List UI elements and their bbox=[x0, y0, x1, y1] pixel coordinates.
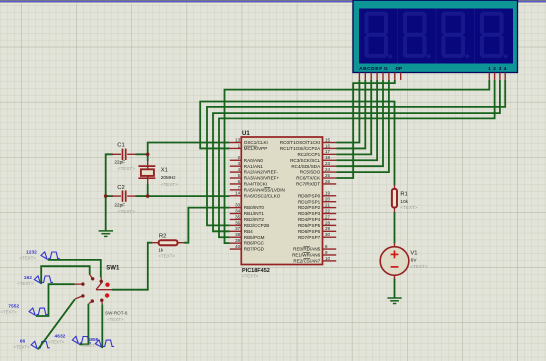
svg-text:<TEXT>: <TEXT> bbox=[118, 166, 135, 171]
svg-text:27: 27 bbox=[325, 214, 331, 219]
U1 right pin 24 bbox=[323, 171, 337, 173]
svg-text:RB3/CCP2B: RB3/CCP2B bbox=[244, 223, 270, 228]
svg-text:RA1/AN1: RA1/AN1 bbox=[244, 164, 264, 169]
svg-text:1k: 1k bbox=[158, 247, 164, 252]
U1 right pin 22 bbox=[323, 213, 337, 215]
wire R1 to V1 bbox=[394, 212, 396, 243]
svg-text:RE0/RD/AN5: RE0/RD/AN5 bbox=[293, 247, 321, 252]
ground (V1) bbox=[387, 298, 401, 304]
7-segment display DS1 body bbox=[353, 0, 518, 72]
wire digit 2 to RB5 pin 38 bbox=[219, 80, 495, 237]
svg-text:36: 36 bbox=[235, 220, 241, 225]
svg-text:16: 16 bbox=[325, 143, 331, 148]
wire seg C to RC2 pin 17 bbox=[336, 80, 371, 154]
U1 right pin 18 bbox=[323, 159, 337, 161]
wire from generator 4859 to SW1 bbox=[101, 304, 103, 348]
U1 left pin 35 bbox=[230, 218, 242, 220]
wire X1 bottom to OSC2 node bbox=[147, 184, 149, 196]
svg-text:14: 14 bbox=[235, 191, 241, 196]
svg-text:20: 20 bbox=[325, 197, 331, 202]
svg-text:34: 34 bbox=[235, 208, 241, 213]
U1 right pin 27 bbox=[323, 218, 337, 220]
wire C1 right bbox=[136, 153, 148, 155]
svg-text:V1: V1 bbox=[410, 251, 417, 257]
pulse generator 4859 bbox=[95, 340, 114, 347]
svg-text:RD0/PSP0: RD0/PSP0 bbox=[298, 193, 321, 198]
U1 right pin 17 bbox=[323, 153, 337, 155]
svg-text:<TEXT>: <TEXT> bbox=[1, 310, 18, 315]
svg-text:G: G bbox=[384, 66, 388, 72]
U1 left pin 6 bbox=[230, 183, 242, 185]
display digit 2 segments bbox=[403, 12, 431, 59]
svg-text:SW-ROT-6: SW-ROT-6 bbox=[105, 311, 128, 316]
svg-text:3: 3 bbox=[499, 66, 502, 72]
wire C2 right bbox=[136, 195, 148, 197]
svg-text:RB6/PGC: RB6/PGC bbox=[244, 241, 265, 246]
wire from generator 162 to SW1 bbox=[41, 266, 89, 284]
display segment letter labels bbox=[359, 66, 507, 72]
U1 right pin 21 bbox=[323, 207, 337, 209]
svg-text:37: 37 bbox=[235, 226, 241, 231]
digit cell divider bbox=[435, 9, 437, 64]
svg-text:<TEXT>: <TEXT> bbox=[48, 339, 65, 344]
svg-text:<TEXT>: <TEXT> bbox=[161, 182, 178, 187]
pulse generator 162 bbox=[34, 276, 53, 283]
U1 left pin 38 bbox=[230, 236, 242, 238]
svg-text:RD4/PSP4: RD4/PSP4 bbox=[298, 217, 321, 222]
wire C1 left rail bbox=[106, 154, 113, 231]
svg-text:21: 21 bbox=[325, 203, 331, 208]
svg-text:<TEXT>: <TEXT> bbox=[158, 253, 175, 258]
svg-text:25: 25 bbox=[325, 173, 331, 178]
U1 right pin 10 bbox=[323, 260, 337, 262]
wire C2 left bbox=[106, 195, 113, 197]
svg-text:29: 29 bbox=[325, 226, 331, 231]
U1 right pin 8 bbox=[323, 248, 337, 250]
svg-text:22pF: 22pF bbox=[114, 160, 125, 165]
svg-text:15: 15 bbox=[325, 137, 331, 142]
svg-text:<TEXT>: <TEXT> bbox=[81, 343, 98, 348]
ground (crystal caps) bbox=[99, 231, 113, 237]
svg-text:23: 23 bbox=[325, 161, 331, 166]
display inner window bbox=[359, 9, 513, 64]
wire from generator 7552 to SW1 bbox=[36, 284, 75, 316]
U1 left pin 2 bbox=[230, 159, 242, 161]
svg-text:RC4/SDI/SDA: RC4/SDI/SDA bbox=[291, 164, 321, 169]
svg-text:RC6/TX/CK: RC6/TX/CK bbox=[296, 176, 321, 181]
svg-text:6V: 6V bbox=[411, 257, 418, 262]
sheet top border bbox=[0, 0, 546, 2]
U1 left pin 33 bbox=[230, 207, 242, 209]
svg-text:RB2/INT2: RB2/INT2 bbox=[244, 217, 265, 222]
svg-text:24: 24 bbox=[325, 167, 331, 172]
junction node OSC1/X1/C1 bbox=[146, 153, 150, 157]
U1 right pin 26 bbox=[323, 183, 337, 185]
U1 left pin 40 bbox=[230, 248, 242, 250]
svg-text:R2: R2 bbox=[159, 234, 166, 240]
overlines on active-low pin names bbox=[244, 145, 257, 147]
svg-text:X1: X1 bbox=[161, 168, 168, 174]
svg-text:MCLR/VPP: MCLR/VPP bbox=[244, 146, 267, 151]
battery V1 bbox=[394, 243, 396, 247]
svg-text:39: 39 bbox=[235, 238, 241, 243]
U1 left pin 3 bbox=[230, 165, 242, 167]
svg-text:<TEXT>: <TEXT> bbox=[410, 264, 427, 269]
svg-text:28: 28 bbox=[325, 220, 331, 225]
SW1 selected-position dots bbox=[105, 283, 109, 287]
svg-text:26: 26 bbox=[325, 179, 331, 184]
svg-text:RA0/AN0: RA0/AN0 bbox=[244, 158, 264, 163]
svg-text:18: 18 bbox=[325, 155, 331, 160]
U1 left pin 39 bbox=[230, 242, 242, 244]
U1 left pin 5 bbox=[230, 177, 242, 179]
svg-text:22: 22 bbox=[325, 208, 331, 213]
U1 left pin 36 bbox=[230, 224, 242, 226]
display pins A-G and DP bbox=[358, 73, 360, 80]
svg-text:SW1: SW1 bbox=[106, 265, 120, 271]
display digit 1 segments bbox=[364, 12, 392, 59]
U1 left pin 13 bbox=[230, 142, 242, 144]
U1 right pin 25 bbox=[323, 177, 337, 179]
svg-text:DP: DP bbox=[395, 66, 402, 72]
microcontroller U1 PIC18F452 body bbox=[241, 137, 322, 265]
svg-text:RD7/PSP7: RD7/PSP7 bbox=[298, 235, 321, 240]
svg-text:RB7/PGD: RB7/PGD bbox=[244, 247, 265, 252]
capacitor C2 bbox=[112, 195, 121, 197]
U1 right pin 28 bbox=[323, 224, 337, 226]
wire V1 to ground bbox=[394, 279, 396, 298]
svg-text:F: F bbox=[379, 66, 382, 72]
svg-text:RB5/PGM: RB5/PGM bbox=[244, 235, 265, 240]
U1 left pin 7 bbox=[230, 189, 242, 191]
wire SW1 common to R2 bbox=[112, 243, 152, 290]
U1 left pin 37 bbox=[230, 230, 242, 232]
svg-text:RA6/OSC2/CLKO: RA6/OSC2/CLKO bbox=[244, 193, 281, 198]
U1 left pin 4 bbox=[230, 171, 242, 173]
U1 right pin 30 bbox=[323, 236, 337, 238]
wire seg A to RC0 pin 15 bbox=[336, 80, 359, 143]
svg-text:OSC1/CLKI: OSC1/CLKI bbox=[244, 140, 268, 145]
svg-text:<TEXT>: <TEXT> bbox=[242, 274, 259, 279]
pulse generator 4632 bbox=[72, 336, 91, 343]
svg-text:<TEXT>: <TEXT> bbox=[118, 209, 135, 214]
svg-text:RD3/PSP3: RD3/PSP3 bbox=[298, 211, 321, 216]
svg-text:RB1/INT1: RB1/INT1 bbox=[244, 211, 265, 216]
svg-text:10: 10 bbox=[325, 256, 331, 261]
svg-text:30: 30 bbox=[325, 232, 331, 237]
U1 right pin 16 bbox=[323, 147, 337, 149]
svg-text:20MHz: 20MHz bbox=[161, 175, 177, 180]
U1 right pin 19 bbox=[323, 195, 337, 197]
U1 left pin 1 bbox=[230, 147, 242, 149]
digit cell divider bbox=[474, 9, 476, 64]
junction node OSC2/X1/C2 bbox=[146, 194, 150, 198]
U1 right pin 29 bbox=[323, 230, 337, 232]
svg-text:RC1/T1OSI/CCP2A: RC1/T1OSI/CCP2A bbox=[280, 146, 321, 151]
svg-text:C1: C1 bbox=[117, 142, 124, 148]
svg-text:<TEXT>: <TEXT> bbox=[13, 344, 30, 349]
svg-text:RC5/SDO: RC5/SDO bbox=[300, 170, 321, 175]
wire C2 node to OSC2 pin14 bbox=[148, 195, 230, 197]
SW1 contact circles bbox=[81, 277, 103, 303]
svg-text:35: 35 bbox=[235, 214, 241, 219]
svg-text:<TEXT>: <TEXT> bbox=[107, 317, 124, 322]
svg-text:17: 17 bbox=[325, 149, 331, 154]
junction node C2/ground rail bbox=[104, 194, 108, 198]
wire seg E to RC4 pin 23 bbox=[336, 80, 383, 166]
pulse generator 1232 bbox=[41, 252, 60, 259]
svg-text:RA3/AN3/VREF+: RA3/AN3/VREF+ bbox=[244, 176, 280, 181]
svg-text:33: 33 bbox=[235, 203, 241, 208]
display digit 4 segments bbox=[480, 12, 508, 59]
svg-text:RA5/AN4/SS/LVDIN: RA5/AN4/SS/LVDIN bbox=[244, 188, 285, 193]
svg-text:38: 38 bbox=[235, 232, 241, 237]
capacitor C1 bbox=[112, 153, 121, 155]
U1 right pin 15 bbox=[323, 142, 337, 144]
svg-text:2: 2 bbox=[493, 66, 496, 72]
wire from generator 1232 to SW1 bbox=[48, 260, 101, 277]
svg-text:10k: 10k bbox=[400, 199, 408, 204]
wire seg G to RC6 pin 25 bbox=[336, 80, 395, 178]
wire R1 top to MCLR pin 1 bbox=[200, 102, 394, 186]
wire digit 1 to RB6 pin 39 bbox=[225, 80, 490, 243]
svg-text:1: 1 bbox=[488, 66, 491, 72]
resistor R1 bbox=[394, 185, 396, 189]
resistor R2 bbox=[152, 242, 159, 244]
wire from generator 4632 to SW1 bbox=[79, 304, 88, 345]
U1 right pin 23 bbox=[323, 165, 337, 167]
U1 left pin 14 bbox=[230, 195, 242, 197]
svg-text:RC7/RX/DT: RC7/RX/DT bbox=[296, 182, 320, 187]
svg-text:RA4/T0CKI: RA4/T0CKI bbox=[244, 182, 267, 187]
svg-text:U1: U1 bbox=[242, 131, 250, 137]
svg-text:40: 40 bbox=[235, 244, 241, 249]
pulse generator 7552 bbox=[29, 308, 48, 315]
digit cell divider bbox=[397, 9, 399, 64]
wire seg B to RC1 pin 16 bbox=[336, 80, 365, 149]
U1 pin name labels bbox=[244, 140, 321, 263]
svg-text:RC2/CCP1: RC2/CCP1 bbox=[297, 152, 320, 157]
svg-text:RA2/AN2/VREF-: RA2/AN2/VREF- bbox=[244, 170, 279, 175]
wire seg D to RC3 pin 18 bbox=[336, 80, 377, 160]
display digit 3 segments bbox=[441, 12, 469, 59]
wire crystal node down to X1 bbox=[147, 154, 149, 161]
U1 right pin 9 bbox=[323, 254, 337, 256]
svg-text:<TEXT>: <TEXT> bbox=[20, 255, 37, 260]
crystal X1 bbox=[147, 161, 149, 170]
wire from generator 66 to SW1 bbox=[38, 299, 75, 349]
svg-text:19: 19 bbox=[325, 191, 331, 196]
svg-text:RB0/INT0: RB0/INT0 bbox=[244, 205, 265, 210]
wire digit 4 to RB3 pin 36 bbox=[207, 80, 505, 225]
wire seg F to RC5 pin 24 bbox=[336, 80, 389, 172]
U1 right pin 20 bbox=[323, 201, 337, 203]
wire R2 to RB0 pin 33 bbox=[184, 208, 230, 243]
svg-text:RC3/SCK/SCL: RC3/SCK/SCL bbox=[290, 158, 321, 163]
wire digit 3 to RB4 pin 37 bbox=[213, 80, 500, 231]
svg-text:<TEXT>: <TEXT> bbox=[17, 281, 34, 286]
svg-text:13: 13 bbox=[235, 137, 241, 142]
svg-text:<TEXT>: <TEXT> bbox=[400, 205, 417, 210]
svg-text:RB4: RB4 bbox=[244, 229, 253, 234]
svg-text:22pF: 22pF bbox=[114, 202, 125, 207]
svg-text:C2: C2 bbox=[117, 185, 124, 191]
svg-text:RD6/PSP6: RD6/PSP6 bbox=[298, 229, 321, 234]
svg-text:R1: R1 bbox=[400, 192, 407, 198]
svg-text:RE1/WR/AN6: RE1/WR/AN6 bbox=[292, 253, 321, 258]
pulse generator 66 bbox=[31, 341, 50, 348]
svg-text:RE2/CS/AN7: RE2/CS/AN7 bbox=[293, 259, 320, 264]
svg-text:4: 4 bbox=[504, 66, 507, 72]
wire OSC1 pin13 to crystal node bbox=[148, 143, 230, 155]
svg-text:RD5/PSP5: RD5/PSP5 bbox=[298, 223, 321, 228]
svg-text:RD1/PSP1: RD1/PSP1 bbox=[298, 199, 321, 204]
svg-text:RC0/T1OSO/T1CKI: RC0/T1OSO/T1CKI bbox=[280, 140, 320, 145]
U1 left pin 34 bbox=[230, 213, 242, 215]
svg-text:RD2/PSP2: RD2/PSP2 bbox=[298, 205, 321, 210]
display pins 1-4 bbox=[488, 73, 490, 80]
